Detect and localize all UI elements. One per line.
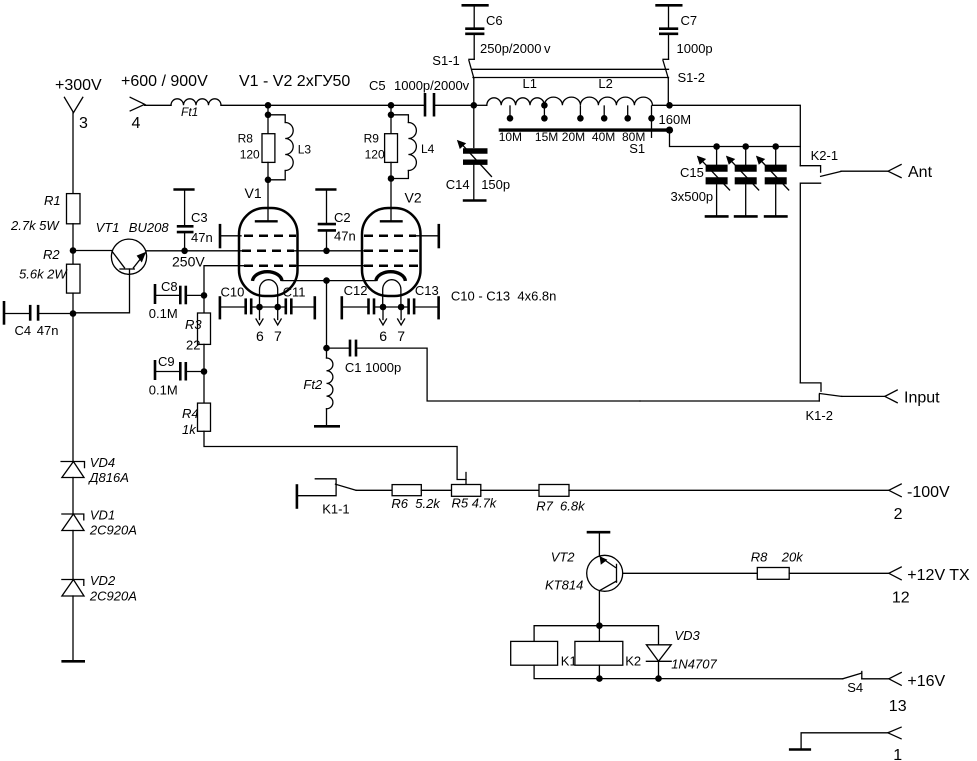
ground (C15c)	[764, 215, 788, 218]
transistor VT2	[545, 550, 623, 593]
wire VD4 to VD1	[72, 478, 74, 515]
capacitor C9	[149, 354, 204, 398]
variable capacitor C15a	[697, 147, 730, 216]
ground (diode chain)	[61, 660, 85, 663]
capacitor C10	[221, 285, 260, 315]
capacitor C13	[401, 283, 439, 314]
inductor L1	[474, 76, 545, 105]
svg-text:2C920A: 2C920A	[89, 588, 137, 603]
svg-text:Ant: Ant	[908, 164, 933, 181]
wire cathode bus V1-V2	[282, 280, 376, 282]
svg-text:+300V: +300V	[55, 77, 102, 94]
svg-text:R8 20k: R8 20k	[751, 549, 805, 564]
tube V1 envelope	[239, 208, 298, 296]
svg-text:KT814: KT814	[545, 578, 583, 593]
svg-text:3x500p: 3x500p	[671, 189, 714, 204]
svg-text:VT2: VT2	[551, 550, 576, 565]
svg-text:L2: L2	[598, 76, 612, 91]
wire K1-1 to R6	[356, 489, 392, 491]
wire K2 to bottom bus	[598, 665, 600, 678]
node bus/R8	[265, 102, 272, 109]
wire cathode node to C1/Ft2	[326, 281, 328, 349]
wire R1 to node	[72, 224, 74, 264]
svg-text:R9: R9	[364, 132, 380, 146]
wire R7 to -100V terminal	[569, 489, 889, 491]
svg-text:C10: C10	[221, 285, 245, 300]
svg-text:VD3: VD3	[675, 628, 701, 643]
svg-text:+12V TX: +12V TX	[907, 567, 970, 584]
wire VT2 collector to relay node	[598, 591, 600, 625]
tube V1 cathode arc	[253, 272, 283, 281]
svg-text:C12: C12	[344, 283, 368, 298]
wire R8 node to R9 node	[268, 104, 391, 106]
wire VT1 base lead	[73, 269, 130, 313]
svg-text:20M: 20M	[562, 130, 585, 144]
svg-text:160M: 160M	[659, 112, 692, 127]
node K2 bottom	[596, 675, 603, 682]
svg-text:VT1: VT1	[96, 220, 120, 235]
node bus/R9	[388, 102, 395, 109]
tap 20M	[577, 106, 584, 122]
capacitor C4	[4, 301, 70, 338]
resistor R8 (anode, 120)	[238, 115, 275, 180]
terminal Input connector	[885, 390, 897, 403]
tap 10M	[507, 106, 514, 122]
grid bar V1 (g1 terminal)	[219, 224, 222, 248]
node L1/L2 junction (15M tap)	[541, 102, 548, 109]
tap 80M	[624, 106, 631, 122]
svg-text:R8: R8	[238, 132, 254, 146]
svg-text:R2: R2	[43, 247, 60, 262]
resistor R6	[391, 485, 441, 511]
svg-text:C4: C4	[15, 323, 32, 338]
wire VD2 to ground	[72, 596, 74, 661]
svg-text:0.1M: 0.1M	[149, 383, 178, 398]
wire C14 branch	[473, 105, 475, 147]
wire to Input terminal	[842, 395, 885, 397]
svg-text:C7: C7	[681, 13, 698, 28]
svg-text:C15: C15	[680, 165, 704, 180]
wire K1 to bottom bus	[534, 665, 599, 678]
tap 40M	[601, 106, 608, 122]
tube V2 grid g3 (dashed)	[364, 264, 418, 267]
variable capacitor C15b	[726, 147, 759, 216]
wire R4 to R5 wiper	[204, 431, 466, 479]
tube V2 envelope	[362, 208, 421, 296]
wire terminal 4 to Ft1	[145, 104, 171, 106]
node cathode bus / Ft2	[323, 277, 330, 284]
svg-text:4: 4	[132, 115, 141, 132]
wire bus to R9/L4 top node	[390, 105, 392, 115]
node R8/L3 top	[265, 112, 272, 119]
terminal 3 (+300V input connector)	[64, 97, 82, 112]
wire R2 to node C4	[72, 293, 74, 313]
transistor VT1	[96, 220, 170, 274]
wire node to VT1 collector	[73, 250, 112, 252]
svg-text:C5: C5	[369, 78, 386, 93]
wire VT2 base to R8	[623, 572, 758, 574]
svg-text:6: 6	[256, 328, 264, 344]
terminal +12V TX connector	[889, 567, 901, 580]
resistor R3	[185, 295, 211, 371]
svg-text:250p/2000 v: 250p/2000 v	[480, 41, 551, 56]
terminal bar C11 right	[313, 296, 316, 319]
svg-text:V1: V1	[245, 185, 262, 201]
capacitor C7	[655, 5, 712, 59]
svg-text:K1-1: K1-1	[322, 501, 349, 516]
wire bus to R8/L3 top node	[267, 105, 269, 115]
wire R9 node to C5	[391, 104, 424, 106]
wire between pins V1	[260, 306, 278, 308]
svg-text:K2: K2	[625, 654, 641, 669]
svg-text:VD4: VD4	[90, 455, 115, 470]
wire g1 lead V1 to bar	[220, 235, 241, 237]
relay contact K1-2	[640, 383, 842, 423]
wire terminal3 to R1	[72, 113, 74, 194]
grid bar V2 (g1 terminal)	[437, 224, 440, 248]
svg-text:10M: 10M	[499, 130, 522, 144]
node VD3 bottom	[655, 675, 662, 682]
svg-text:2C920A: 2C920A	[89, 522, 137, 537]
tube V1 grid g3 (dashed)	[244, 264, 296, 267]
capacitor C11	[278, 285, 315, 315]
inductor Ft1	[171, 99, 221, 119]
resistor R8 (20k)	[751, 549, 805, 579]
svg-text:K2-1: K2-1	[811, 148, 838, 163]
tube V2 anode plate	[381, 220, 402, 222]
svg-text:15M: 15M	[535, 130, 558, 144]
svg-text:R4: R4	[182, 406, 199, 421]
svg-text:K1-2: K1-2	[806, 408, 833, 423]
ground (C15b)	[734, 215, 758, 218]
svg-text:2: 2	[894, 506, 903, 523]
wire node to K1	[534, 626, 599, 642]
inductor L2	[544, 76, 652, 105]
wire terminal 1 to ground	[801, 733, 888, 749]
terminal bar C13 right	[437, 296, 440, 319]
svg-text:C10 - C13 4x6.8n: C10 - C13 4x6.8n	[451, 289, 557, 304]
svg-text:22: 22	[186, 338, 200, 353]
capacitor C8	[149, 279, 204, 321]
svg-text:C6: C6	[486, 13, 503, 28]
tube V1 grid g2 (dashed)	[242, 250, 294, 253]
node relay top junction	[596, 622, 603, 629]
svg-text:5.6k 2W: 5.6k 2W	[19, 267, 68, 282]
svg-text:150p: 150p	[481, 177, 510, 192]
tube V2 grid g1 (dashed)	[364, 235, 416, 238]
node pin 7 V1	[274, 304, 281, 311]
ground (Ft2)	[314, 425, 340, 428]
svg-text:R1: R1	[44, 193, 61, 208]
heater arrow pin 6 V2	[379, 307, 387, 344]
tube V1 anode plate	[256, 220, 277, 222]
terminal 4 (+600/900V input connector)	[130, 97, 145, 111]
svg-text:1000p: 1000p	[677, 41, 713, 56]
tube V2 heater arch	[383, 280, 401, 307]
wire node to VD4	[72, 314, 74, 462]
capacitor C6	[462, 5, 552, 59]
wire node to K2	[598, 626, 600, 642]
wire VD1 to VD2	[72, 531, 74, 580]
switch S4	[843, 672, 863, 696]
node pin 7 V2	[398, 304, 405, 311]
svg-text:7: 7	[274, 328, 282, 344]
svg-text:120: 120	[365, 148, 385, 162]
svg-text:C9: C9	[158, 354, 175, 369]
relay coil K1	[511, 641, 577, 668]
node C8/R3	[201, 292, 208, 299]
svg-text:1000p/2000v: 1000p/2000v	[394, 78, 470, 93]
wire bus to right corner	[670, 105, 801, 165]
capacitor C2	[315, 190, 355, 251]
svg-text:7: 7	[397, 328, 405, 344]
node R1/R2/VT1 junction	[70, 247, 77, 254]
terminal 1 connector	[888, 727, 901, 739]
node 250V junction	[181, 248, 188, 255]
inductor L3	[268, 115, 311, 180]
relay coil K2	[575, 641, 641, 668]
variable capacitor C15c	[756, 147, 789, 216]
svg-text:C3: C3	[191, 210, 208, 225]
svg-text:V1 - V2 2хГУ50: V1 - V2 2хГУ50	[239, 73, 350, 90]
wire bottom bus to S4	[599, 678, 842, 680]
svg-text:C2: C2	[334, 210, 351, 225]
wire heater/cap row V2	[343, 306, 367, 308]
resistor R2	[19, 247, 80, 293]
capacitor C3	[173, 190, 212, 251]
wire S1-1 to bus	[473, 78, 475, 105]
svg-text:R5 4.7k: R5 4.7k	[452, 496, 498, 511]
wire g1 lead V2 to bar	[417, 235, 439, 237]
svg-text:S4: S4	[847, 680, 863, 695]
node C1/Ft2	[323, 345, 330, 352]
svg-text:L4: L4	[421, 142, 435, 156]
svg-text:R6 5.2k: R6 5.2k	[391, 496, 441, 511]
node pin 6 V2	[380, 304, 387, 311]
resistor R5 (trimmer)	[452, 485, 498, 511]
terminal -100V connector	[889, 484, 901, 497]
svg-text:C1 1000p: C1 1000p	[345, 360, 401, 375]
svg-text:R3: R3	[185, 317, 202, 332]
ground (terminal 1)	[789, 748, 811, 751]
node C4/R2/VT1-base junction	[70, 310, 77, 317]
diode VD3	[646, 628, 717, 679]
svg-text:250V: 250V	[172, 254, 205, 270]
svg-text:VD2: VD2	[90, 573, 116, 588]
wire R6 to R5	[421, 489, 451, 491]
inductor Ft2	[303, 348, 333, 425]
wire C1 to Input line	[357, 348, 640, 401]
svg-text:Д816А: Д816А	[87, 470, 129, 485]
tap 160M	[648, 106, 655, 137]
svg-text:C11: C11	[283, 285, 306, 300]
capacitor C5	[369, 78, 470, 117]
wire R8 to +12V TX terminal	[789, 572, 889, 574]
relay contact K1-1	[297, 479, 356, 517]
wire S1 bar to C15 row	[670, 130, 801, 146]
resistor R7	[536, 485, 586, 514]
node L2/S1-2 junction	[666, 102, 673, 109]
svg-text:-100V: -100V	[907, 484, 950, 501]
wire g3 bus	[204, 266, 364, 296]
resistor R1	[10, 193, 80, 233]
svg-text:0.1M: 0.1M	[149, 306, 178, 321]
svg-text:+16V: +16V	[907, 673, 945, 690]
svg-text:L3: L3	[298, 143, 312, 157]
svg-text:V2: V2	[405, 189, 422, 205]
svg-text:47n: 47n	[191, 230, 213, 245]
wire anode lead V2	[390, 179, 392, 222]
heater arrow pin 7 V2	[397, 307, 405, 344]
svg-text:47n: 47n	[334, 229, 356, 244]
svg-text:6: 6	[379, 328, 387, 344]
svg-text:1N4707: 1N4707	[671, 657, 717, 672]
svg-text:Ft1: Ft1	[181, 105, 198, 119]
switch S1-1	[432, 53, 474, 78]
node C9/R4	[201, 368, 208, 375]
wire g2 bus (250V to both tubes)	[185, 250, 364, 252]
wire node to VD3	[599, 626, 658, 645]
terminal bar C12 left	[340, 296, 343, 319]
svg-text:13: 13	[889, 698, 907, 715]
resistor R4	[182, 372, 211, 438]
svg-text:120: 120	[240, 148, 260, 162]
tube V2 cathode arc	[376, 272, 406, 281]
heater arrow pin 7 V1	[274, 307, 282, 344]
node C15b	[742, 143, 749, 150]
node V2 anode	[388, 175, 395, 182]
ground (C14)	[463, 199, 487, 202]
wire L2 to right bus	[652, 104, 669, 106]
tap 15M	[541, 106, 548, 122]
zener diode VD2	[62, 573, 137, 603]
svg-text:S1-1: S1-1	[432, 53, 459, 68]
node C15c	[772, 143, 779, 150]
wire between pins V2	[383, 306, 401, 308]
wire heater/cap row V1	[221, 306, 244, 308]
svg-text:40M: 40M	[592, 130, 615, 144]
terminal bar C10 left	[219, 296, 222, 319]
node C15a	[713, 143, 720, 150]
wire R5 to R7	[481, 489, 539, 491]
node g2/C2 junction	[323, 248, 330, 255]
node R9/L4 top	[388, 112, 395, 119]
wire anode lead V1	[267, 180, 269, 222]
variable capacitor C14	[446, 140, 510, 199]
node pin 6 V1	[256, 304, 263, 311]
svg-text:12: 12	[892, 590, 910, 607]
svg-text:Input: Input	[904, 390, 940, 407]
svg-text:C14: C14	[446, 177, 470, 192]
wire Ft1 to R8 node	[221, 104, 268, 106]
svg-text:1k: 1k	[182, 422, 197, 437]
resistor R9 (anode, 120)	[364, 115, 398, 179]
inductor L4	[391, 115, 435, 179]
svg-text:BU208: BU208	[129, 220, 170, 235]
switch S1-2	[663, 59, 705, 105]
terminal Ant connector	[888, 165, 901, 178]
svg-text:Ft2: Ft2	[303, 377, 323, 392]
capacitor C12	[344, 283, 383, 314]
terminal +16V connector	[889, 673, 901, 686]
svg-text:VD1: VD1	[90, 507, 115, 522]
svg-text:+600 / 900V: +600 / 900V	[121, 73, 208, 90]
wire ground to VT2	[598, 532, 600, 556]
svg-text:1: 1	[893, 747, 902, 761]
svg-text:R7 6.8k: R7 6.8k	[536, 499, 586, 514]
switch stator lines S1 top	[473, 69, 669, 77]
heater arrow pin 6 V1	[256, 307, 264, 344]
tube V1 grid g1 (dashed)	[244, 235, 296, 238]
ground (C15a)	[705, 215, 729, 218]
svg-text:S1-2: S1-2	[678, 70, 705, 85]
svg-text:2.7k 5W: 2.7k 5W	[10, 218, 60, 233]
wire S4 to +16V terminal	[862, 678, 889, 680]
node bus/S1-1/C14	[471, 102, 478, 109]
node S1 bar end	[666, 127, 673, 134]
wire to Ant terminal	[841, 170, 888, 172]
svg-text:L1: L1	[523, 76, 537, 91]
zener diode VD4	[61, 455, 129, 485]
svg-text:47n: 47n	[37, 323, 59, 338]
svg-text:3: 3	[79, 115, 88, 132]
svg-text:C13: C13	[415, 283, 439, 298]
node V1 anode	[265, 177, 272, 184]
zener diode VD1	[62, 507, 137, 537]
svg-text:S1: S1	[629, 141, 645, 156]
capacitor C1	[327, 340, 402, 375]
svg-text:C8: C8	[161, 279, 178, 294]
wire C5 to L1 node	[436, 104, 474, 106]
switch S1 wiper bar	[499, 128, 668, 131]
relay contact K2-1	[800, 148, 841, 383]
ground (VT2 emitter)	[587, 531, 611, 534]
wire VT1 emitter to node 250V	[146, 250, 184, 252]
tube V2 grid g2 (dashed)	[364, 250, 418, 253]
tube V1 heater arch	[260, 280, 278, 307]
trimmer wiper R5	[465, 473, 467, 485]
